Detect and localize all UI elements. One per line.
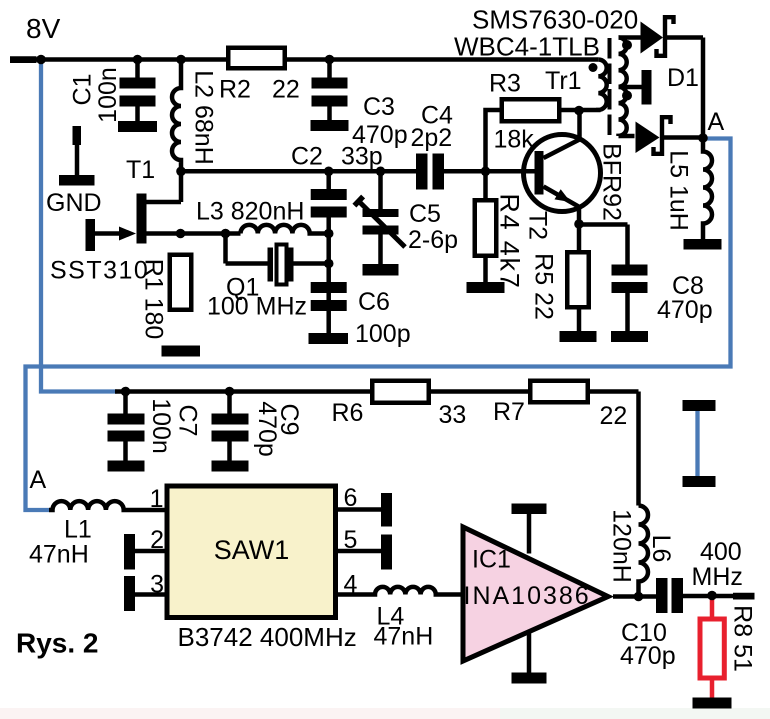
- svg-text:6: 6: [344, 484, 358, 512]
- svg-text:C7: C7: [174, 405, 202, 437]
- svg-text:B3742 400MHz: B3742 400MHz: [178, 622, 357, 652]
- svg-text:C2: C2: [291, 143, 323, 171]
- svg-text:22: 22: [600, 402, 628, 430]
- svg-text:R3: R3: [489, 70, 521, 98]
- svg-text:470p: 470p: [657, 296, 713, 324]
- svg-text:R5 22: R5 22: [530, 253, 558, 320]
- svg-text:L2 68nH: L2 68nH: [190, 70, 218, 165]
- svg-text:18k: 18k: [494, 126, 535, 154]
- svg-text:22: 22: [272, 76, 300, 104]
- svg-text:33p: 33p: [341, 143, 383, 171]
- svg-text:T1: T1: [126, 156, 155, 184]
- svg-text:C3: C3: [363, 93, 395, 121]
- svg-text:D1: D1: [667, 64, 699, 92]
- svg-text:R2: R2: [219, 76, 251, 104]
- svg-text:A: A: [30, 466, 47, 494]
- svg-text:MHz: MHz: [692, 563, 743, 591]
- svg-text:L3 820nH: L3 820nH: [196, 198, 304, 226]
- svg-text:C1: C1: [69, 74, 97, 106]
- svg-text:47nH: 47nH: [374, 623, 434, 651]
- svg-text:IC1: IC1: [472, 546, 511, 574]
- svg-text:SMS7630-020: SMS7630-020: [472, 5, 638, 35]
- svg-text:C5: C5: [409, 200, 441, 228]
- svg-text:5: 5: [344, 526, 358, 554]
- svg-text:100p: 100p: [355, 320, 411, 348]
- svg-text:C6: C6: [358, 288, 390, 316]
- svg-text:R1 180: R1 180: [140, 259, 168, 340]
- svg-text:R6: R6: [332, 399, 364, 427]
- svg-text:L1: L1: [64, 516, 92, 544]
- svg-text:8V: 8V: [26, 13, 61, 44]
- svg-text:33: 33: [439, 401, 467, 429]
- svg-text:400: 400: [700, 538, 742, 566]
- svg-text:WBC4-1TLB: WBC4-1TLB: [454, 32, 600, 62]
- svg-text:Tr1: Tr1: [545, 67, 582, 95]
- svg-text:INA10386: INA10386: [464, 582, 591, 610]
- svg-text:3: 3: [150, 571, 164, 599]
- svg-text:2-6p: 2-6p: [408, 226, 458, 254]
- svg-text:R4 4k7: R4 4k7: [495, 193, 525, 289]
- svg-text:100 MHz: 100 MHz: [207, 293, 307, 321]
- svg-text:SAW1: SAW1: [214, 535, 290, 565]
- svg-text:T2: T2: [524, 211, 552, 240]
- svg-text:L5 1uH: L5 1uH: [665, 150, 693, 231]
- svg-text:4: 4: [344, 571, 358, 599]
- svg-text:2p2: 2p2: [411, 124, 453, 152]
- svg-text:A: A: [708, 108, 725, 136]
- svg-text:47nH: 47nH: [29, 541, 89, 569]
- svg-text:470p: 470p: [253, 401, 281, 457]
- svg-text:1: 1: [150, 485, 164, 513]
- svg-text:470p: 470p: [620, 642, 676, 670]
- svg-text:SST310: SST310: [50, 257, 149, 285]
- svg-text:GND: GND: [46, 189, 102, 217]
- svg-text:120nH: 120nH: [608, 509, 636, 583]
- svg-text:100n: 100n: [147, 398, 175, 454]
- svg-text:2: 2: [150, 526, 164, 554]
- svg-text:R7: R7: [493, 398, 525, 426]
- svg-text:100n: 100n: [94, 67, 122, 123]
- svg-text:R8 51: R8 51: [729, 605, 757, 672]
- svg-text:Rys. 2: Rys. 2: [16, 628, 99, 659]
- svg-text:L6: L6: [647, 535, 675, 563]
- svg-text:BFR92: BFR92: [598, 143, 626, 221]
